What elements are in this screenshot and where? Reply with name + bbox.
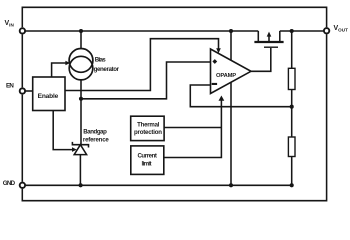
svg-text:OPAMP: OPAMP [216, 73, 236, 79]
resistor R2 [288, 137, 295, 157]
svg-text:reference: reference [83, 136, 110, 143]
wire current limit output to opamp arrow [165, 101, 222, 158]
junction VIN-opamp supply [229, 29, 233, 33]
svg-text:VOUT: VOUT [334, 25, 349, 32]
wire bandgap anode to GND [79, 155, 81, 186]
wire thermal protection output [165, 127, 222, 129]
junction GND-divider [290, 183, 294, 187]
wire divider middle [291, 90, 293, 138]
svg-text:protection: protection [134, 129, 162, 136]
wire divider top [291, 31, 293, 68]
opamp + mark [212, 59, 217, 64]
arrowhead enable to bias [65, 61, 70, 66]
wire enable to bandgap arrow [53, 111, 72, 150]
wire drain to VOUT [280, 30, 324, 32]
svg-text:Thermal: Thermal [137, 122, 160, 129]
wire opamp + input from bias node [81, 62, 211, 99]
svg-text:Bandgap: Bandgap [83, 129, 107, 136]
wire enable to opamp top arrow [65, 39, 219, 91]
svg-text:Bias: Bias [95, 57, 107, 64]
arrowhead enable to opamp [216, 48, 221, 53]
arrowhead transistor body [267, 32, 272, 37]
junction VIN-bias [79, 29, 83, 33]
junction GND-bandgap [79, 183, 83, 187]
svg-text:GND: GND [3, 180, 16, 187]
op-amp U1 [211, 49, 252, 94]
chip boundary border [22, 7, 326, 200]
wire VIN rail [25, 30, 258, 32]
junction divider mid [290, 105, 294, 109]
svg-text:EN: EN [6, 82, 14, 89]
transistor Q1 drain leg [279, 31, 281, 42]
transistor Q1 body leg [268, 36, 270, 42]
wire bias generator bottom lead to bandgap [80, 80, 82, 145]
transistor Q1 source leg [257, 31, 259, 42]
resistor R1 [288, 68, 295, 89]
bandgap reference zener D1 [72, 142, 88, 155]
svg-text:VIN: VIN [5, 20, 15, 27]
junction GND-opamp [229, 183, 233, 187]
wire opamp output to gate [251, 48, 271, 71]
wire GND rail [25, 184, 291, 186]
node EN terminal [20, 88, 25, 93]
wire feedback divider to opamp - input [190, 85, 291, 107]
junction VOUT-divider [290, 29, 294, 33]
wire opamp ground to GND rail [230, 82, 232, 185]
bias generator I1 [69, 49, 93, 80]
transistor Q1 gate bar [264, 46, 278, 48]
svg-text:Current: Current [137, 153, 157, 160]
wire divider bottom [291, 157, 293, 186]
wire bias generator top lead [80, 31, 82, 49]
svg-text:limit: limit [142, 160, 152, 167]
thermal protection block [131, 116, 164, 140]
junction bias-plus input [79, 97, 83, 101]
svg-text:Enable: Enable [38, 93, 59, 100]
transistor Q1 channel bar [254, 41, 283, 43]
svg-text:generator: generator [94, 66, 120, 73]
node VIN terminal [20, 28, 25, 33]
node VOUT terminal [324, 28, 329, 33]
arrowhead current limit to opamp [219, 96, 225, 101]
enable block [33, 77, 65, 111]
opamp - mark [212, 83, 217, 85]
node GND terminal [20, 183, 25, 188]
terminal circles [20, 28, 330, 188]
wire EN to Enable [25, 90, 32, 92]
wire enable to bias arrow [52, 63, 66, 77]
arrowhead enable to bandgap [72, 147, 77, 152]
wire opamp supply from VIN rail [230, 31, 232, 60]
current limit block [131, 146, 164, 175]
